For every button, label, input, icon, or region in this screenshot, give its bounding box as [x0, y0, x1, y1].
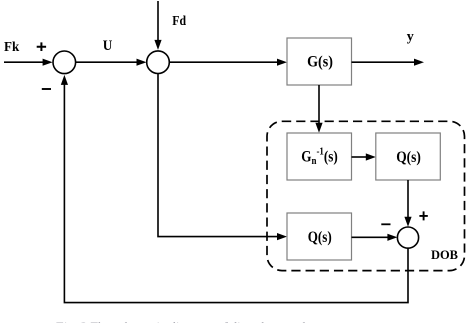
plus sign at summing junction S1 [37, 42, 46, 51]
block Q(s) lower [287, 213, 352, 260]
plus sign at summing junction S3 [419, 211, 427, 220]
wire Fk input arrow into S1 [4, 59, 53, 66]
input label Fk [4, 40, 19, 55]
svg-text:y: y [407, 30, 414, 45]
disturbance input label Fd [172, 14, 186, 29]
svg-text:Fk: Fk [4, 40, 19, 55]
wire lower Q(s) to S3 [352, 234, 398, 241]
svg-text:U: U [103, 38, 113, 54]
svg-text:Q(s): Q(s) [396, 149, 421, 166]
node label U [103, 38, 113, 54]
wire Fd input into S2 [154, 1, 161, 50]
block Q(s) upper [376, 133, 441, 180]
summing junction S2 [147, 51, 170, 74]
svg-text:Q(s): Q(s) [308, 229, 332, 246]
minus sign at summing junction S3 [381, 223, 390, 225]
feedback wire S3 to S1 [61, 75, 408, 303]
svg-text:DOB: DOB [431, 248, 458, 262]
wire Gn^-1(s) to upper Q(s) [352, 153, 376, 160]
wire S1 to S2 [76, 59, 147, 66]
DOB label [431, 248, 458, 262]
svg-text:G(s): G(s) [307, 54, 333, 71]
wire upper Q(s) down to S3 [404, 180, 411, 227]
output wire y [352, 59, 425, 66]
summing junction S3 [397, 227, 418, 248]
cropped caption text at bottom edge [54, 321, 341, 323]
wire S2 to G(s) [169, 59, 287, 66]
summing junction S1 [53, 51, 76, 74]
minus sign at summing junction S1 [42, 88, 51, 90]
svg-text:Fd: Fd [172, 14, 186, 29]
wire S2 tap down and right to lower Q(s) [158, 74, 287, 241]
wire G(s) down to Gn^-1(s) [315, 85, 322, 133]
output label y [407, 30, 414, 45]
DOB dashed boundary box [267, 121, 465, 270]
block G(s) [287, 38, 352, 85]
block Gn^-1(s) [287, 133, 352, 180]
